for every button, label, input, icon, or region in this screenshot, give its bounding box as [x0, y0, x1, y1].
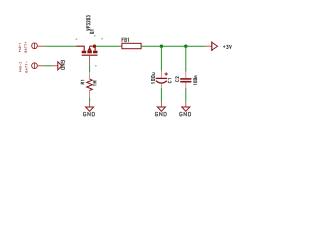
connector JP2 pad circle — [32, 63, 38, 69]
wire net C1 to GND — [160, 88, 162, 102]
node junction dot at C2 — [184, 45, 187, 48]
bulk arrow — [88, 47, 92, 51]
connector JP1 pad circle — [32, 43, 38, 49]
wire net VBATT from JP1 to Q1 source — [45, 45, 76, 47]
wire down to C1 — [160, 46, 162, 70]
transistor Q1 VP3203 — [76, 16, 97, 66]
capacitor C1 100u (polarized) — [151, 71, 171, 89]
connector JP2 pin — [38, 65, 45, 67]
gate plate — [82, 54, 98, 56]
ground GND under R1 — [89, 102, 91, 107]
origin cross marks — [76, 38, 78, 40]
junction dot — [93, 45, 96, 48]
wire net Q1 drain to FB1 — [96, 45, 120, 47]
ground GND under C1 — [160, 102, 162, 107]
connector JP1 name label — [19, 43, 21, 51]
gate pin — [89, 55, 91, 65]
wire down to C2 — [185, 46, 187, 71]
ground GND (rotated, right-pointing) — [52, 65, 58, 67]
wire net from JP2 to GND — [45, 65, 52, 67]
wire net +3V rail — [142, 45, 206, 47]
connector JP2 name label — [20, 62, 22, 71]
connector JP2 value label — [25, 62, 27, 73]
drain wire — [90, 45, 96, 47]
ferrite bead FB1 — [120, 38, 142, 49]
source wire — [76, 46, 84, 51]
channel bars — [82, 51, 87, 54]
connector JP1 value label — [25, 42, 27, 52]
resistor R1 1M — [81, 72, 96, 97]
ground GND under C2 — [185, 102, 187, 107]
wire net R1 to GND — [89, 97, 91, 101]
connector JP1 pin — [38, 45, 45, 47]
wire net Q1 gate to R1 — [89, 65, 91, 72]
node junction dot at C1 — [160, 45, 163, 48]
supply arrow +3V — [206, 41, 232, 51]
capacitor C2 100n — [176, 72, 197, 88]
wire net C2 to GND — [185, 88, 187, 102]
